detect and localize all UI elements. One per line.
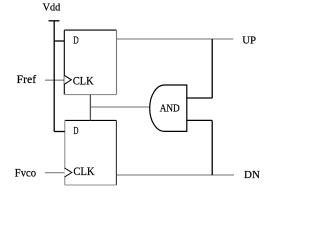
svg-text:UP: UP [242, 34, 256, 46]
svg-text:Fvco: Fvco [15, 167, 36, 179]
svg-text:CLK: CLK [73, 75, 94, 87]
svg-text:DN: DN [244, 169, 260, 181]
svg-text:Vdd: Vdd [43, 3, 61, 14]
svg-text:D: D [73, 35, 79, 47]
svg-text:D: D [73, 125, 78, 137]
svg-text:AND: AND [160, 104, 180, 115]
svg-text:Fref: Fref [17, 74, 37, 86]
svg-text:CLK: CLK [73, 166, 95, 178]
